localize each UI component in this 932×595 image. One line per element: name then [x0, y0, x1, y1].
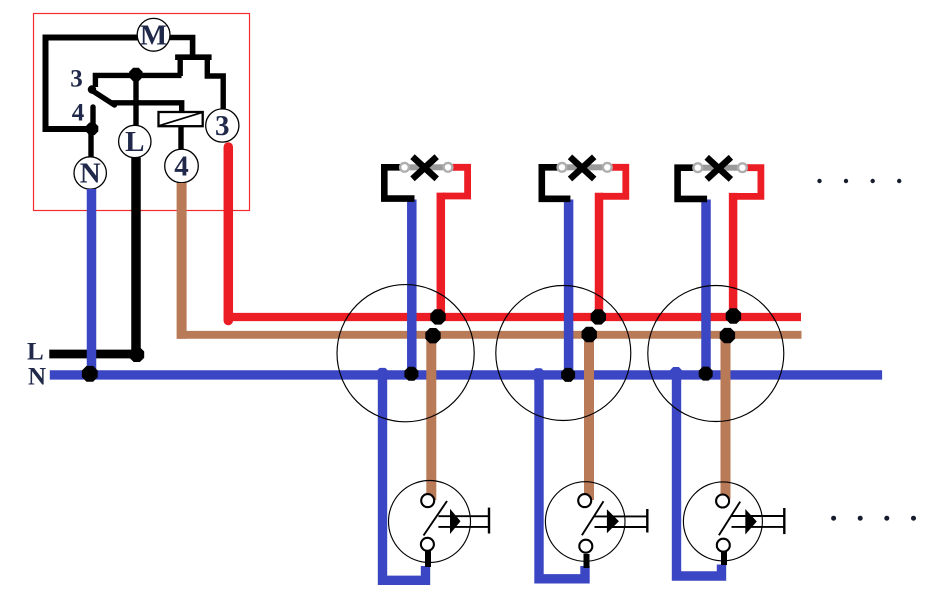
push button 2 [545, 482, 647, 568]
node dot brown bus 1 [425, 328, 440, 343]
lamp 2 [542, 157, 626, 199]
switch blade [91, 90, 115, 106]
node blue tee 1 [376, 368, 390, 382]
wire junction to N terminal [88, 129, 93, 158]
wire brown drop from terminal 4 [177, 183, 187, 339]
wire blue drop from terminal N [87, 189, 97, 375]
svg-text:L: L [27, 339, 44, 366]
wire dot to L terminal [133, 74, 138, 127]
wire blue lamp drop 3 [701, 200, 711, 376]
node dot red bus 2 [591, 309, 606, 324]
node blue tee 2 [532, 368, 546, 382]
node dot N bus / N drop [82, 366, 98, 382]
wire blue button loop 1 [383, 375, 426, 580]
node dot red bus 1 [430, 309, 445, 324]
lamp 3 [678, 157, 761, 199]
terminal 3 [206, 109, 239, 142]
wire M left loop [46, 38, 140, 130]
push button 1 [389, 481, 490, 568]
wire red bus [224, 313, 801, 321]
svg-text:N: N [80, 158, 101, 190]
svg-text:3: 3 [215, 110, 230, 142]
wire blade to coil [110, 103, 182, 113]
wire blue N bus [50, 370, 882, 379]
node dot red bus 3 [726, 308, 741, 323]
wire red lamp drop 1 [437, 193, 446, 321]
wire blue button loop 3 [677, 375, 722, 576]
terminal N [74, 157, 106, 190]
svg-text:N: N [28, 364, 46, 391]
contact left stub [177, 58, 182, 76]
relay coil [159, 112, 203, 126]
wire blue lamp drop 2 [564, 200, 574, 376]
svg-text:4: 4 [72, 100, 85, 127]
node dot brown bus 2 [582, 327, 597, 342]
wire blue lamp drop 1 [407, 200, 417, 376]
contact right stub to terminal 3 [207, 58, 223, 110]
contact 4 stub [90, 107, 95, 126]
node dot blue bus 1 [404, 367, 418, 381]
wire coil to terminal 4 [178, 126, 183, 150]
node junction dot 4/N [86, 123, 99, 136]
wire brown button drop 2 [584, 335, 594, 500]
ellipsis dots bottom right [831, 516, 916, 521]
node dot blue bus 2 [561, 368, 575, 382]
wire brown bus [177, 331, 802, 339]
wire red drop from terminal 3 [224, 147, 234, 321]
svg-text:4: 4 [174, 151, 189, 183]
svg-text:M: M [140, 20, 167, 52]
wire L feed (black bus) [49, 350, 137, 359]
terminal L [119, 125, 151, 158]
push button 3 [683, 482, 784, 565]
node dot blue bus 3 [699, 367, 713, 381]
node dot L feed junction [129, 347, 144, 362]
junction box circle 3 [648, 286, 784, 422]
node junction dot L [129, 68, 142, 81]
wire M right to contact [168, 38, 193, 57]
wire red lamp drop 3 [729, 193, 738, 320]
wire node row y75 [95, 75, 181, 87]
node dot brown bus 3 [720, 328, 735, 343]
terminal M [137, 18, 170, 51]
junction box circle 2 [496, 286, 631, 421]
switch blade contact nib [88, 85, 96, 93]
svg-text:3: 3 [70, 66, 83, 93]
terminal 4 [165, 149, 199, 183]
wire brown button drop 1 [426, 335, 436, 500]
wire red lamp drop 2 [595, 193, 604, 321]
wire blue button loop 2 [539, 375, 585, 579]
wire L terminal drop [131, 158, 141, 356]
contact bar of M switch [175, 54, 212, 60]
svg-text:L: L [125, 126, 144, 158]
wire brown button drop 3 [721, 335, 731, 499]
lamp 1 [384, 157, 467, 199]
ellipsis dots top right [817, 179, 901, 183]
node blue tee 3 [669, 367, 683, 381]
timer enclosure box [34, 14, 250, 211]
junction box circle 1 [337, 285, 474, 422]
